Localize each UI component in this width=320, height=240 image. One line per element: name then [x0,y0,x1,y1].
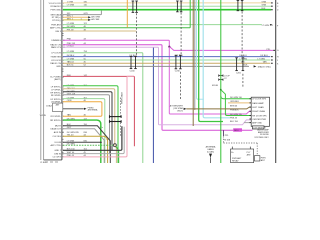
svg-text:AMP CTRL: AMP CTRL [50,27,62,30]
svg-text:B+ FUSED: B+ FUSED [50,76,61,78]
svg-text:GND 2: GND 2 [54,150,61,152]
svg-text:(COAX): (COAX) [207,150,214,153]
dashed link PPL to theft module [224,136,258,155]
svg-text:RADIO/AMP: RADIO/AMP [252,102,264,105]
svg-text:DIMMING: DIMMING [51,40,61,42]
dashed below C2 lower [242,74,244,88]
svg-text:PNK/BLK: PNK/BLK [230,110,239,112]
dashed below C2 [241,12,243,58]
green branch diagonal to second vertical, amp row5 [221,90,251,116]
arrow A/D 2 [88,19,91,21]
left pin function labels inside radio box [46,3,62,159]
wire GRY serial data [63,11,102,15]
wire BRN vertical [192,0,194,126]
wire BLK/bright GRN row3 [63,9,271,11]
svg-text:LF DOOR SPK: LF DOOR SPK [252,99,266,101]
svg-text:LF SPKR-: LF SPKR- [51,90,61,92]
svg-text:GND: GND [56,66,61,68]
svg-text:AMP GND: AMP GND [252,122,262,125]
svg-text:ONLY): ONLY) [177,111,183,113]
svg-text:DK BLU: DK BLU [130,55,138,57]
wire GRY rf- : corner down x110.6 [63,95,110,154]
wire DK GRN amp, turns up at x190 [63,0,190,28]
wire WHT/GRY dim: east then up x124.2 [63,127,124,154]
svg-text:DK GRN 115: DK GRN 115 [230,114,243,116]
wire ORN lr- : corner down x101.9 and back west as TAN row [63,102,102,117]
svg-text:LT GRN: LT GRN [240,58,248,60]
svg-text:A/D GRN: A/D GRN [91,15,100,18]
svg-text:COAX: COAX [46,104,53,107]
wire DK GRN vertical x220.8 full height [220,0,222,163]
svg-text:CLK SIG: CLK SIG [52,136,61,138]
stub ORN row2 [228,102,251,104]
wire DK GRN dashed antenna control with ring terminal [63,144,113,146]
svg-text:DIM IN: DIM IN [54,153,61,155]
wire ORN row1 [63,2,271,4]
wire LT GRN lr-door (long) [63,59,270,61]
arrow brown (points left) [184,108,187,110]
magenta branch down from dot to amp feed [169,47,251,114]
amp stub labels [230,97,243,123]
svg-text:GRN: GRN [262,5,267,7]
wire ORN right-rear, to arrow [63,16,88,18]
loop connector on green feed [219,75,223,81]
vertical ORN from top joining green row [126,0,128,27]
arrow A/D [88,16,91,18]
svg-text:RR SPKR-: RR SPKR- [51,116,62,118]
svg-text:SER DATA: SER DATA [51,14,62,17]
wire GRY data: diagonal into bundle [63,129,104,163]
svg-text:DK BLU: DK BLU [176,55,184,57]
wire BLK rf+ : corner down x113.8 [63,92,112,151]
svg-text:PWR ANT: PWR ANT [232,157,242,160]
wire TAN lf- : corner down x117.5 [63,89,117,163]
in-line connector C210 (top mid pair) [176,1,182,12]
dashed line below C210 [180,13,182,56]
svg-text:MUTE: MUTE [55,126,62,128]
svg-text:RF SPKR-: RF SPKR- [51,95,61,97]
wire LT PNK park lamps: down at x158.5, east y124.8, up to amp row6 [63,47,251,125]
pin ids right of margin line [277,3,279,66]
svg-text:RR SPKR+: RR SPKR+ [50,120,62,122]
wire LT GRN pwr ant (long) [63,24,262,26]
svg-text:ILLUM: ILLUM [55,142,62,144]
text at brown arrow [170,105,184,113]
svg-text:W/ BOSE: W/ BOSE [260,134,269,136]
wire PPL drop from M10 line [223,130,225,136]
wire BLK antenna lead to arrow [63,108,84,110]
right margin line [275,0,277,163]
wire DK BLU vertical from pink row down to bottom [152,48,154,163]
svg-text:LR SPKR-: LR SPKR- [51,102,61,104]
svg-text:ORN BLK: ORN BLK [230,101,240,103]
connector pin numbers [63,3,66,159]
wire YEL clock: curve down x107.6 [63,136,108,163]
wire GRY vertical [194,0,196,110]
theft deterrent module box [231,147,267,163]
svg-text:PNK 43: PNK 43 [230,117,238,119]
antenna jack box on radio [53,103,63,112]
svg-text:C205: C205 [236,73,242,75]
stub GRY row7 [244,122,251,124]
svg-text:A/D TAN: A/D TAN [91,18,99,21]
junction dot bundle [107,139,109,141]
svg-text:DK GRN 835: DK GRN 835 [67,132,80,134]
wire LT GRN lf+ : corner down x122.5 [63,86,118,163]
svg-text:CD CHG: CD CHG [52,157,61,159]
arrow radio ground [254,65,257,67]
svg-text:IGN 3: IGN 3 [55,31,61,33]
svg-text:ANT: ANT [261,159,266,162]
svg-text:TWEETER: TWEETER [50,57,61,59]
wire BLK ground with arrow at right [63,65,249,67]
mid-run wire id labels [130,55,248,64]
M10 magenta label pill [233,128,242,131]
wire GRN vertical mid, elbow east at 121.5 [199,0,223,122]
wire TAN ign3 [63,30,136,32]
svg-text:LT GRN: LT GRN [258,58,266,60]
svg-text:DK BLU: DK BLU [261,55,269,57]
amp connector pin marks [250,98,252,123]
wire PNK/MAG dimming: over, down, jog, to right edge [63,40,273,50]
right end labels and pins [244,1,274,68]
svg-text:LT GRN 121: LT GRN 121 [262,25,274,27]
wire DK GRN rr+ : curve down x100.8 to bottom [63,120,101,163]
dashed line below C100 [136,13,138,56]
green branch to amp row1 [221,96,251,99]
wire id labels above wires, column 1 and 2 [67,1,104,157]
svg-text:SPKR LEADS: SPKR LEADS [121,91,124,104]
svg-text:LEFT CHAN: LEFT CHAN [252,106,264,109]
svg-text:RELAY: RELAY [232,160,239,163]
svg-text:LR DOOR: LR DOOR [51,60,61,62]
wire BLK mute: diagonal into bundle [63,126,110,163]
in-line connector C2 lower [235,58,244,71]
in-line connector C210 lower [175,55,182,69]
svg-text:LF DOOR: LF DOOR [51,53,61,55]
svg-text:DK GRN 116: DK GRN 116 [230,97,243,99]
svg-text:DK BLU: DK BLU [240,55,248,57]
arrow antenna cable (down) [209,154,212,158]
svg-text:J: J [277,60,278,62]
wire PNK cd-changer: east then up x126.6 [63,76,134,157]
svg-text:SYSTEM ONLY: SYSTEM ONLY [254,137,269,139]
svg-text:RF SPKR+: RF SPKR+ [50,92,61,94]
wire LT GRN lr+ : corner down x104.8 [63,99,105,163]
svg-text:BLK: BLK [262,8,267,10]
svg-text:LGT SWITCH: LGT SWITCH [253,127,266,129]
dashes under radio box [45,161,58,163]
svg-text:RT RR(-): RT RR(-) [52,20,61,22]
junction dot dimming [168,46,170,48]
in-line connector C2 (right pair top) [237,0,244,10]
A/C control end box on magenta line [252,126,264,129]
svg-text:DATA OUT: DATA OUT [51,128,62,131]
junction dot on green [220,89,222,91]
svg-text:RR DOOR SPK: RR DOOR SPK [252,115,267,117]
wire TAN radio-on (long) [63,62,270,64]
svg-text:ORN: ORN [262,1,267,3]
svg-text:M.10B: M.10B [212,85,219,87]
svg-text:C200: C200 [130,70,136,72]
radio unit box left edge (double line) [41,0,44,160]
relay contact sub box [254,156,260,161]
svg-text:AUX IN: AUX IN [54,131,62,134]
svg-text:PWR ANT: PWR ANT [51,24,61,27]
svg-text:PARK LTS: PARK LTS [51,46,62,49]
svg-text:ANTENNA: ANTENNA [88,109,98,112]
svg-text:PWR GND: PWR GND [51,10,62,12]
wire GRN row2 [63,5,271,7]
svg-text:M 10B: M 10B [224,140,231,142]
in-line connector C100 lower (crosses door speaker rows) [130,56,137,68]
svg-text:CENTER PWR: CENTER PWR [252,119,266,121]
svg-text:LF SPKR+: LF SPKR+ [51,86,62,88]
wire PNK radio-on: down at x162, east at y130.2 (M10 line) [63,45,253,130]
wire BLK gnd2: east then up x121.9 [63,126,122,150]
wire DK BLU tweeter (long to right) [63,56,270,58]
svg-text:RIGHT CHAN: RIGHT CHAN [252,110,265,113]
wire LT GRN lf-door: east then down at x142.8 to bottom [63,53,143,163]
svg-text:TAN: TAN [263,61,267,64]
connector pin stubs and numbers [62,33,64,152]
wire LT BLU cyan vertical 2, elbow east at 117.8 [203,0,230,118]
svg-text:BLK 150: BLK 150 [230,121,239,123]
dashed below C210 lower [179,72,181,100]
svg-text:BLK: BLK [244,65,249,67]
wire RED battery: east, down at x134.4 [63,76,134,146]
text audio amp note [254,128,269,139]
svg-text:VOL/CLOCK: VOL/CLOCK [49,3,62,5]
in-line connector C300 (horizontal, speaker bundle) [110,115,122,123]
wire YEL right-rear minus, to arrow [63,19,88,21]
wire BLK illum short, end dot [63,141,101,143]
svg-text:RR AUDIO: RR AUDIO [51,5,62,8]
dashed below C300 [120,98,122,116]
text antenna cable [206,146,216,154]
radio connector C1 body line [61,0,63,160]
svg-text:ANT CTRL: ANT CTRL [50,144,61,147]
audio amplifier connector box [251,97,269,126]
svg-text:ANT: ANT [247,154,252,157]
svg-text:TAN: TAN [241,61,245,64]
svg-text:C230: C230 [175,71,181,73]
svg-text:BRN 46: BRN 46 [230,105,238,107]
radio box bottom edge [44,159,62,161]
wire BRN w/arrow to amp row3 [186,107,251,109]
svg-text:(BATT): (BATT) [54,78,61,81]
svg-text:(RADIO GRD): (RADIO GRD) [258,65,271,68]
wire LT BLU cyan vertical 1, elbow east [197,0,204,99]
svg-text:RADIO ON: RADIO ON [50,62,61,65]
amp stub wires [228,103,251,123]
in-line connector C100 (top left pair) [132,1,138,12]
right wire end pin marks [270,2,275,64]
